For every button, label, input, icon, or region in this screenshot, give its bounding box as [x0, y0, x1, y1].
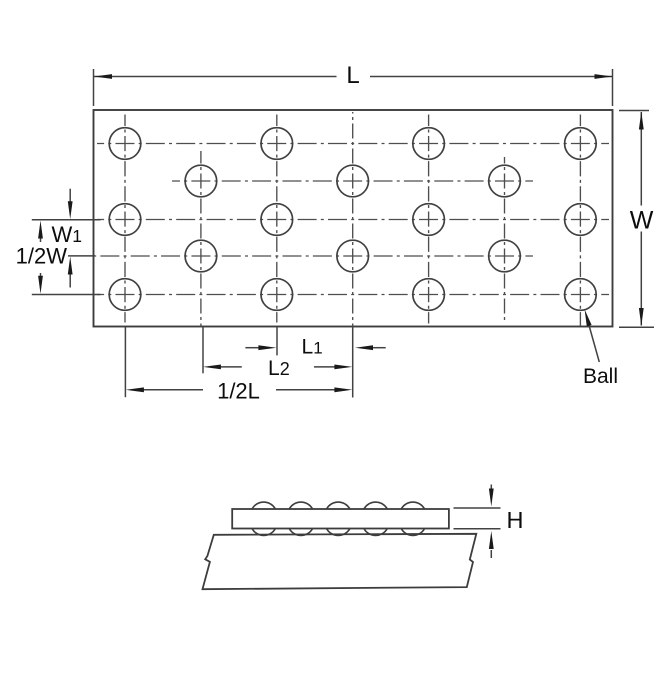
- centerline row 1: [97, 143, 609, 145]
- dimension H lower arrow: [490, 550, 492, 558]
- centerline column 2: [276, 115, 278, 323]
- extension line row3 left (C): [32, 294, 101, 296]
- extension line col1 below: [124, 327, 126, 398]
- svg-text:W: W: [630, 207, 654, 235]
- svg-text:1/2L: 1/2L: [217, 379, 260, 404]
- dimension line W: [640, 112, 642, 206]
- dimension H extension line bottom: [454, 528, 501, 530]
- dimension W1 lower arrow: [69, 273, 71, 288]
- ball hole offset row1 col2: [337, 165, 369, 197]
- dimension W1 upper arrow: [69, 189, 71, 203]
- centerline offset column 3: [504, 157, 506, 320]
- side view plate: [232, 509, 449, 529]
- ball hole row3 col1: [109, 279, 141, 311]
- extension line row2 left (A): [32, 219, 101, 221]
- ball hole offset row1 col1: [185, 165, 217, 197]
- ball hole row2 col2: [261, 204, 293, 236]
- centerline row 2: [97, 219, 609, 221]
- dimension 1/2W upper arrow: [40, 237, 42, 242]
- ball 4 bottom arc: [364, 529, 387, 536]
- support surface (broken parallelogram): [203, 534, 477, 589]
- ball hole offset row2 col3: [489, 240, 521, 272]
- ball hole row1 col4: [565, 128, 597, 160]
- centerline offset column 2: [352, 112, 354, 327]
- dimension L extension line right: [612, 69, 614, 106]
- arrowhead W up: [639, 112, 644, 130]
- svg-text:L2: L2: [268, 357, 290, 380]
- centerline offset column 1: [200, 151, 202, 327]
- ball hole row1 col1: [109, 128, 141, 160]
- centerline column 4: [579, 115, 581, 327]
- dimension H upper arrow: [490, 485, 492, 491]
- centerline column 1: [124, 115, 126, 323]
- extension line offset row2 left (B): [68, 255, 95, 257]
- ball 5 bottom arc: [401, 529, 424, 536]
- svg-text:1/2W: 1/2W: [16, 244, 68, 269]
- leader line to Ball: [588, 320, 600, 362]
- ball 1 top arc: [252, 502, 275, 509]
- ball 2 top arc: [289, 502, 312, 509]
- centerline column 3: [428, 115, 430, 324]
- dimension W extension line top: [619, 110, 649, 112]
- ball 4 top arc: [364, 502, 387, 509]
- extension line col2 below: [276, 327, 278, 356]
- svg-text:Ball: Ball: [583, 365, 618, 388]
- dimension 1/2L: [142, 389, 203, 391]
- extension line offset col2 below: [352, 327, 354, 398]
- dimension L1: [245, 347, 259, 349]
- svg-text:L1: L1: [302, 336, 323, 359]
- ball hole row2 col3: [413, 204, 445, 236]
- arrowhead L right: [595, 74, 613, 79]
- ball hole offset row2 col2: [337, 240, 369, 272]
- ball hole row3 col2: [261, 279, 293, 311]
- ball 5 top arc: [401, 502, 424, 509]
- svg-text:L: L: [346, 62, 359, 89]
- extension line offset col1 below: [202, 327, 204, 374]
- dimension H extension line top: [454, 507, 501, 509]
- ball hole row3 col3: [413, 279, 445, 311]
- arrowhead W down: [639, 308, 644, 326]
- ball hole offset row1 col3: [489, 165, 521, 197]
- ball hole row3 col4 (Ball): [565, 279, 597, 311]
- dimension W extension line bottom: [619, 326, 654, 328]
- ball 3 bottom arc: [327, 529, 350, 536]
- ball hole offset row2 col1: [185, 240, 217, 272]
- leader arrowhead: [585, 309, 592, 326]
- centerline row 3: [97, 294, 609, 296]
- plate outline (top view): [94, 110, 613, 327]
- ball 1 bottom arc: [252, 529, 275, 536]
- ball 3 top arc: [327, 502, 350, 509]
- dimension L2: [219, 366, 242, 368]
- centerline offset row 2: [95, 255, 533, 257]
- ball hole row2 col1: [109, 204, 141, 236]
- ball 2 bottom arc: [289, 529, 312, 536]
- dimension L extension line left: [93, 69, 95, 106]
- dimension 1/2W lower arrow: [40, 273, 42, 276]
- ball hole row2 col4: [565, 204, 597, 236]
- arrowhead L left: [94, 74, 112, 79]
- ball hole row1 col2: [261, 128, 293, 160]
- svg-text:H: H: [507, 507, 524, 533]
- dimension line L: [94, 76, 337, 78]
- centerline offset row 1: [172, 180, 533, 182]
- ball hole row1 col3: [413, 128, 445, 160]
